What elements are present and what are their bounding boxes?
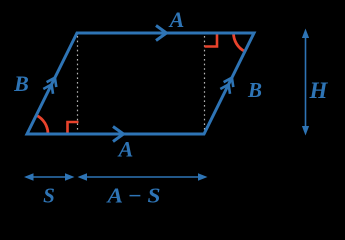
arrow tick on top side A (156, 26, 167, 41)
svg-text:S: S (43, 184, 55, 208)
svg-text:B: B (13, 71, 29, 96)
right angle mark at top of right altitude (205, 34, 218, 47)
measure arrow S (double-headed horizontal) (26, 176, 73, 178)
measure arrow A minus S (double-headed horizontal) (80, 176, 206, 178)
parallelogram outline (27, 33, 254, 134)
svg-text:A: A (117, 137, 134, 162)
angle arc at top-right vertex (233, 33, 244, 51)
angle arc at bottom-left vertex (36, 115, 48, 134)
dotted altitude line right (down to bottom-right vertex) (204, 36, 206, 131)
arrow tick on bottom side A (113, 127, 124, 142)
height measure arrow H (double-headed vertical) (305, 33, 307, 131)
right angle mark at foot of left altitude (68, 122, 79, 134)
svg-text:A: A (168, 7, 185, 32)
svg-text:H: H (309, 78, 329, 103)
svg-text:A − S: A − S (105, 184, 160, 208)
double chevron on left side B (47, 78, 57, 87)
svg-text:B: B (247, 78, 262, 102)
dotted altitude line left (from top-left vertex down) (77, 36, 79, 132)
double chevron on right side B (224, 78, 234, 87)
